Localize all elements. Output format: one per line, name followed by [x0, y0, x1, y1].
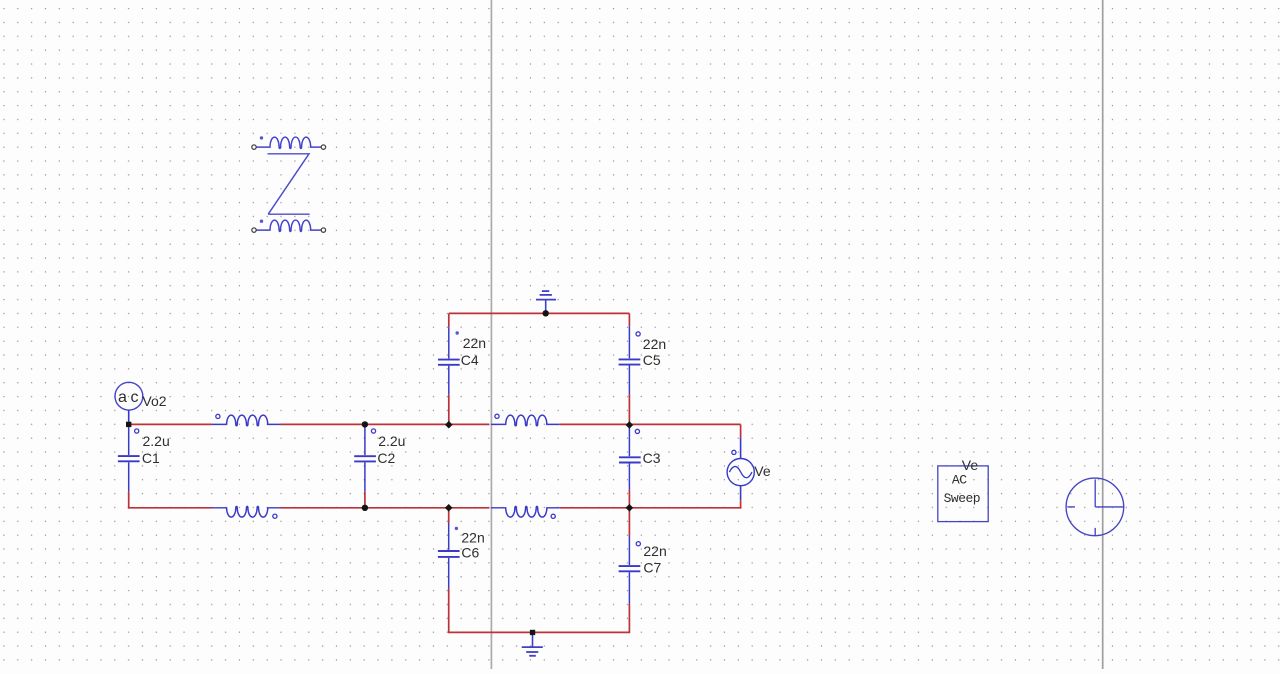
wire: C5 top stub: [628, 313, 630, 326]
transformer secondary winding: [256, 220, 321, 231]
capacitor C1: [118, 424, 140, 491]
svg-text:22n: 22n: [643, 336, 666, 352]
svg-text:Sweep: Sweep: [944, 491, 981, 506]
wire: C4 top stub: [448, 313, 450, 327]
wire: C7 top stub: [628, 508, 630, 536]
capacitor C2: [354, 424, 376, 491]
wire: bottom rail Ve to L4: [560, 507, 742, 509]
wire: mid rail Vo2 node to L1: [129, 423, 212, 425]
capacitor C5: [619, 326, 641, 394]
svg-text:Ve: Ve: [962, 457, 979, 473]
junction: bottom rail / C6: [445, 504, 453, 512]
capacitor C3: [619, 424, 641, 489]
wire: Ve branch vertical top: [740, 424, 742, 437]
junction: Vo2 node / mid rail / C1: [126, 422, 131, 427]
wire: C1 bottom corner vertical: [128, 492, 130, 509]
wire: mid rail L1 to C4 node: [281, 423, 490, 425]
transformer Z core symbol: [268, 154, 310, 214]
svg-text:22n: 22n: [461, 530, 484, 546]
wire: bottom rail L3 to C6 node: [281, 507, 490, 509]
junction: bottom rail / C2: [362, 505, 368, 511]
junction: mid rail / C5 / C3: [626, 421, 634, 429]
svg-text:2.2u: 2.2u: [143, 433, 170, 449]
svg-text:22n: 22n: [643, 543, 666, 559]
wire: top rail C4 to C5: [449, 312, 630, 314]
ground (bottom, net 0): [522, 632, 543, 655]
wire: mid rail L2 to Ve branch: [560, 423, 741, 425]
inductor L2 (top-center series arm): [491, 414, 560, 426]
ac source Vo2: [115, 382, 143, 424]
svg-text:C4: C4: [461, 352, 479, 368]
svg-text:C6: C6: [461, 545, 479, 561]
transformer primary right terminal: [321, 145, 325, 149]
junction: top rail / ground: [543, 310, 549, 316]
svg-text:2.2u: 2.2u: [378, 433, 405, 449]
junction: bottom rail / ground: [530, 630, 535, 635]
svg-text:C1: C1: [142, 450, 160, 466]
capacitor C4: [438, 327, 460, 395]
transformer primary left terminal: [252, 145, 256, 149]
AC Sweep analysis box: [938, 466, 988, 522]
wire: C3 bottom stub: [628, 490, 630, 508]
inductor L4 (bottom-center return arm): [491, 506, 560, 518]
wire: C2 bottom stub: [364, 492, 366, 508]
inductor L1 (top-left, 2.2u series arm): [212, 414, 281, 425]
wire: C5 bottom stub: [628, 394, 630, 424]
transformer secondary polarity dot: [260, 220, 263, 223]
ground (top, net 0): [536, 291, 556, 313]
junction: mid rail / C4: [445, 421, 453, 429]
wire: bottom rail C6 to C7: [449, 631, 630, 633]
wire: C6 bottom stub: [448, 589, 450, 634]
capacitor C6: [438, 524, 460, 589]
svg-text:C3: C3: [643, 450, 661, 466]
inductor L3 (bottom-left return arm): [212, 506, 281, 518]
svg-text:C2: C2: [377, 450, 395, 466]
svg-text:AC: AC: [952, 472, 967, 487]
wire: C7 bottom stub: [628, 604, 630, 633]
capacitor C7: [619, 536, 641, 604]
svg-text:ac: ac: [118, 389, 142, 406]
wire: C4 bottom stub: [448, 395, 450, 425]
transformer secondary right terminal: [321, 228, 325, 232]
clock icon: [1066, 478, 1124, 536]
transformer primary polarity dot: [260, 136, 263, 139]
junction: mid rail / C2: [362, 421, 368, 427]
svg-text:22n: 22n: [463, 335, 486, 351]
svg-text:C7: C7: [643, 560, 661, 576]
svg-text:Vo2: Vo2: [142, 393, 166, 409]
wire: C6 top stub: [448, 508, 450, 524]
wire: Ve branch vertical bottom: [740, 500, 742, 508]
junction: bottom rail / C3 / C7: [626, 504, 634, 512]
wire: bottom rail C1 to L3: [128, 507, 212, 509]
svg-text:C5: C5: [643, 352, 661, 368]
svg-text:Ve: Ve: [754, 463, 771, 479]
transformer primary winding: [256, 137, 321, 148]
sine source Ve: [727, 437, 754, 500]
transformer secondary left terminal: [252, 228, 256, 232]
